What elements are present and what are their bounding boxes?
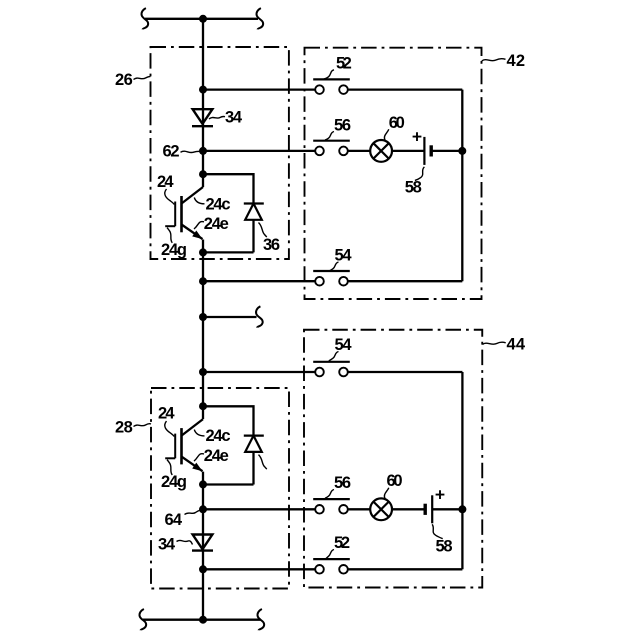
svg-text:24c: 24c — [206, 427, 231, 445]
svg-text:60: 60 — [389, 114, 405, 132]
svg-text:24c: 24c — [206, 195, 231, 213]
svg-text:58: 58 — [436, 538, 453, 556]
svg-text:62: 62 — [163, 143, 180, 161]
svg-text:26: 26 — [115, 71, 133, 89]
svg-text:24: 24 — [157, 173, 174, 191]
svg-text:28: 28 — [115, 418, 133, 436]
svg-text:54: 54 — [335, 246, 353, 264]
svg-text:24: 24 — [158, 404, 175, 422]
svg-text:24e: 24e — [204, 447, 229, 465]
svg-text:34: 34 — [158, 536, 176, 554]
svg-text:36: 36 — [263, 236, 280, 254]
svg-text:64: 64 — [165, 511, 183, 529]
svg-text:24e: 24e — [204, 215, 229, 233]
svg-text:58: 58 — [405, 179, 422, 197]
svg-text:56: 56 — [334, 117, 351, 135]
svg-text:34: 34 — [225, 109, 243, 127]
svg-text:52: 52 — [334, 534, 350, 552]
svg-text:24g: 24g — [161, 241, 187, 259]
svg-text:52: 52 — [336, 54, 352, 72]
svg-text:24g: 24g — [161, 473, 187, 491]
svg-text:44: 44 — [507, 336, 526, 354]
svg-text:56: 56 — [334, 474, 351, 492]
svg-text:60: 60 — [387, 472, 403, 490]
svg-text:54: 54 — [335, 336, 353, 354]
svg-text:42: 42 — [507, 52, 526, 70]
